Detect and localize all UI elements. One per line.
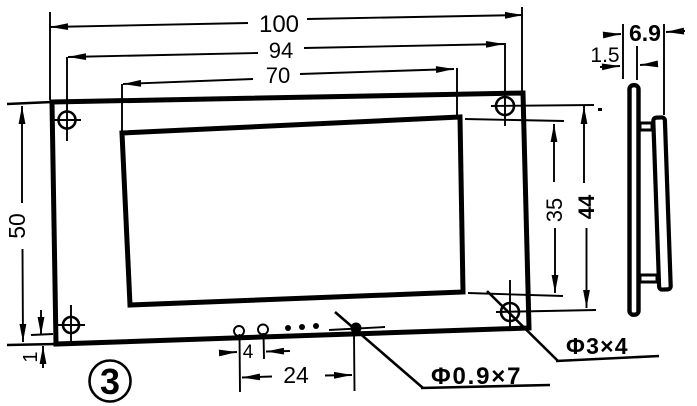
mounting hole bottom-left — [58, 305, 85, 341]
circled 3 — [90, 361, 131, 403]
svg-text:6.9: 6.9 — [629, 20, 661, 46]
svg-text:100: 100 — [259, 11, 299, 38]
dim 1 — [20, 310, 53, 368]
pin hole 7 (filled) — [329, 323, 385, 334]
svg-text:50: 50 — [4, 213, 30, 239]
svg-text:Φ3×4: Φ3×4 — [566, 333, 629, 359]
dim 70 — [122, 63, 457, 133]
dim 1.5 — [590, 44, 656, 80]
dim 24 — [242, 334, 355, 391]
leader phi3x4 — [487, 291, 659, 361]
side view right slab — [653, 117, 671, 289]
svg-text:44: 44 — [574, 194, 599, 219]
svg-text:Φ0.9×7: Φ0.9×7 — [431, 363, 522, 390]
dim 100 — [50, 7, 523, 100]
mounting hole top-left — [54, 57, 81, 141]
dim 4 — [219, 333, 290, 392]
pin hole 2 — [258, 325, 268, 335]
dim 44 — [574, 106, 599, 308]
display window — [122, 117, 463, 305]
dim 35 — [465, 119, 567, 296]
mounting hole bottom-right — [496, 280, 596, 331]
dim 6.9 — [603, 20, 685, 115]
svg-text:4: 4 — [243, 342, 254, 363]
dim 50 — [4, 106, 30, 342]
side view top connector — [640, 123, 652, 130]
side view bottom connector — [640, 275, 657, 282]
board top edge extension left — [7, 102, 52, 104]
svg-text:1.5: 1.5 — [590, 44, 619, 67]
svg-text:1: 1 — [20, 351, 42, 362]
svg-text:3: 3 — [100, 361, 120, 402]
mounting hole top-right — [491, 43, 594, 126]
side view left slab — [630, 85, 639, 315]
dim 94 — [68, 38, 504, 63]
ellipsis dots — [285, 323, 319, 331]
svg-text:35: 35 — [542, 198, 567, 222]
board outline — [52, 93, 529, 344]
leader phi0.9x7 — [335, 312, 550, 390]
pin hole 1 — [234, 326, 244, 336]
svg-text:94: 94 — [269, 38, 293, 63]
svg-text:24: 24 — [283, 362, 309, 388]
board bottom edge extension left — [7, 344, 56, 345]
stray mark — [598, 108, 602, 111]
svg-text:70: 70 — [266, 63, 290, 88]
